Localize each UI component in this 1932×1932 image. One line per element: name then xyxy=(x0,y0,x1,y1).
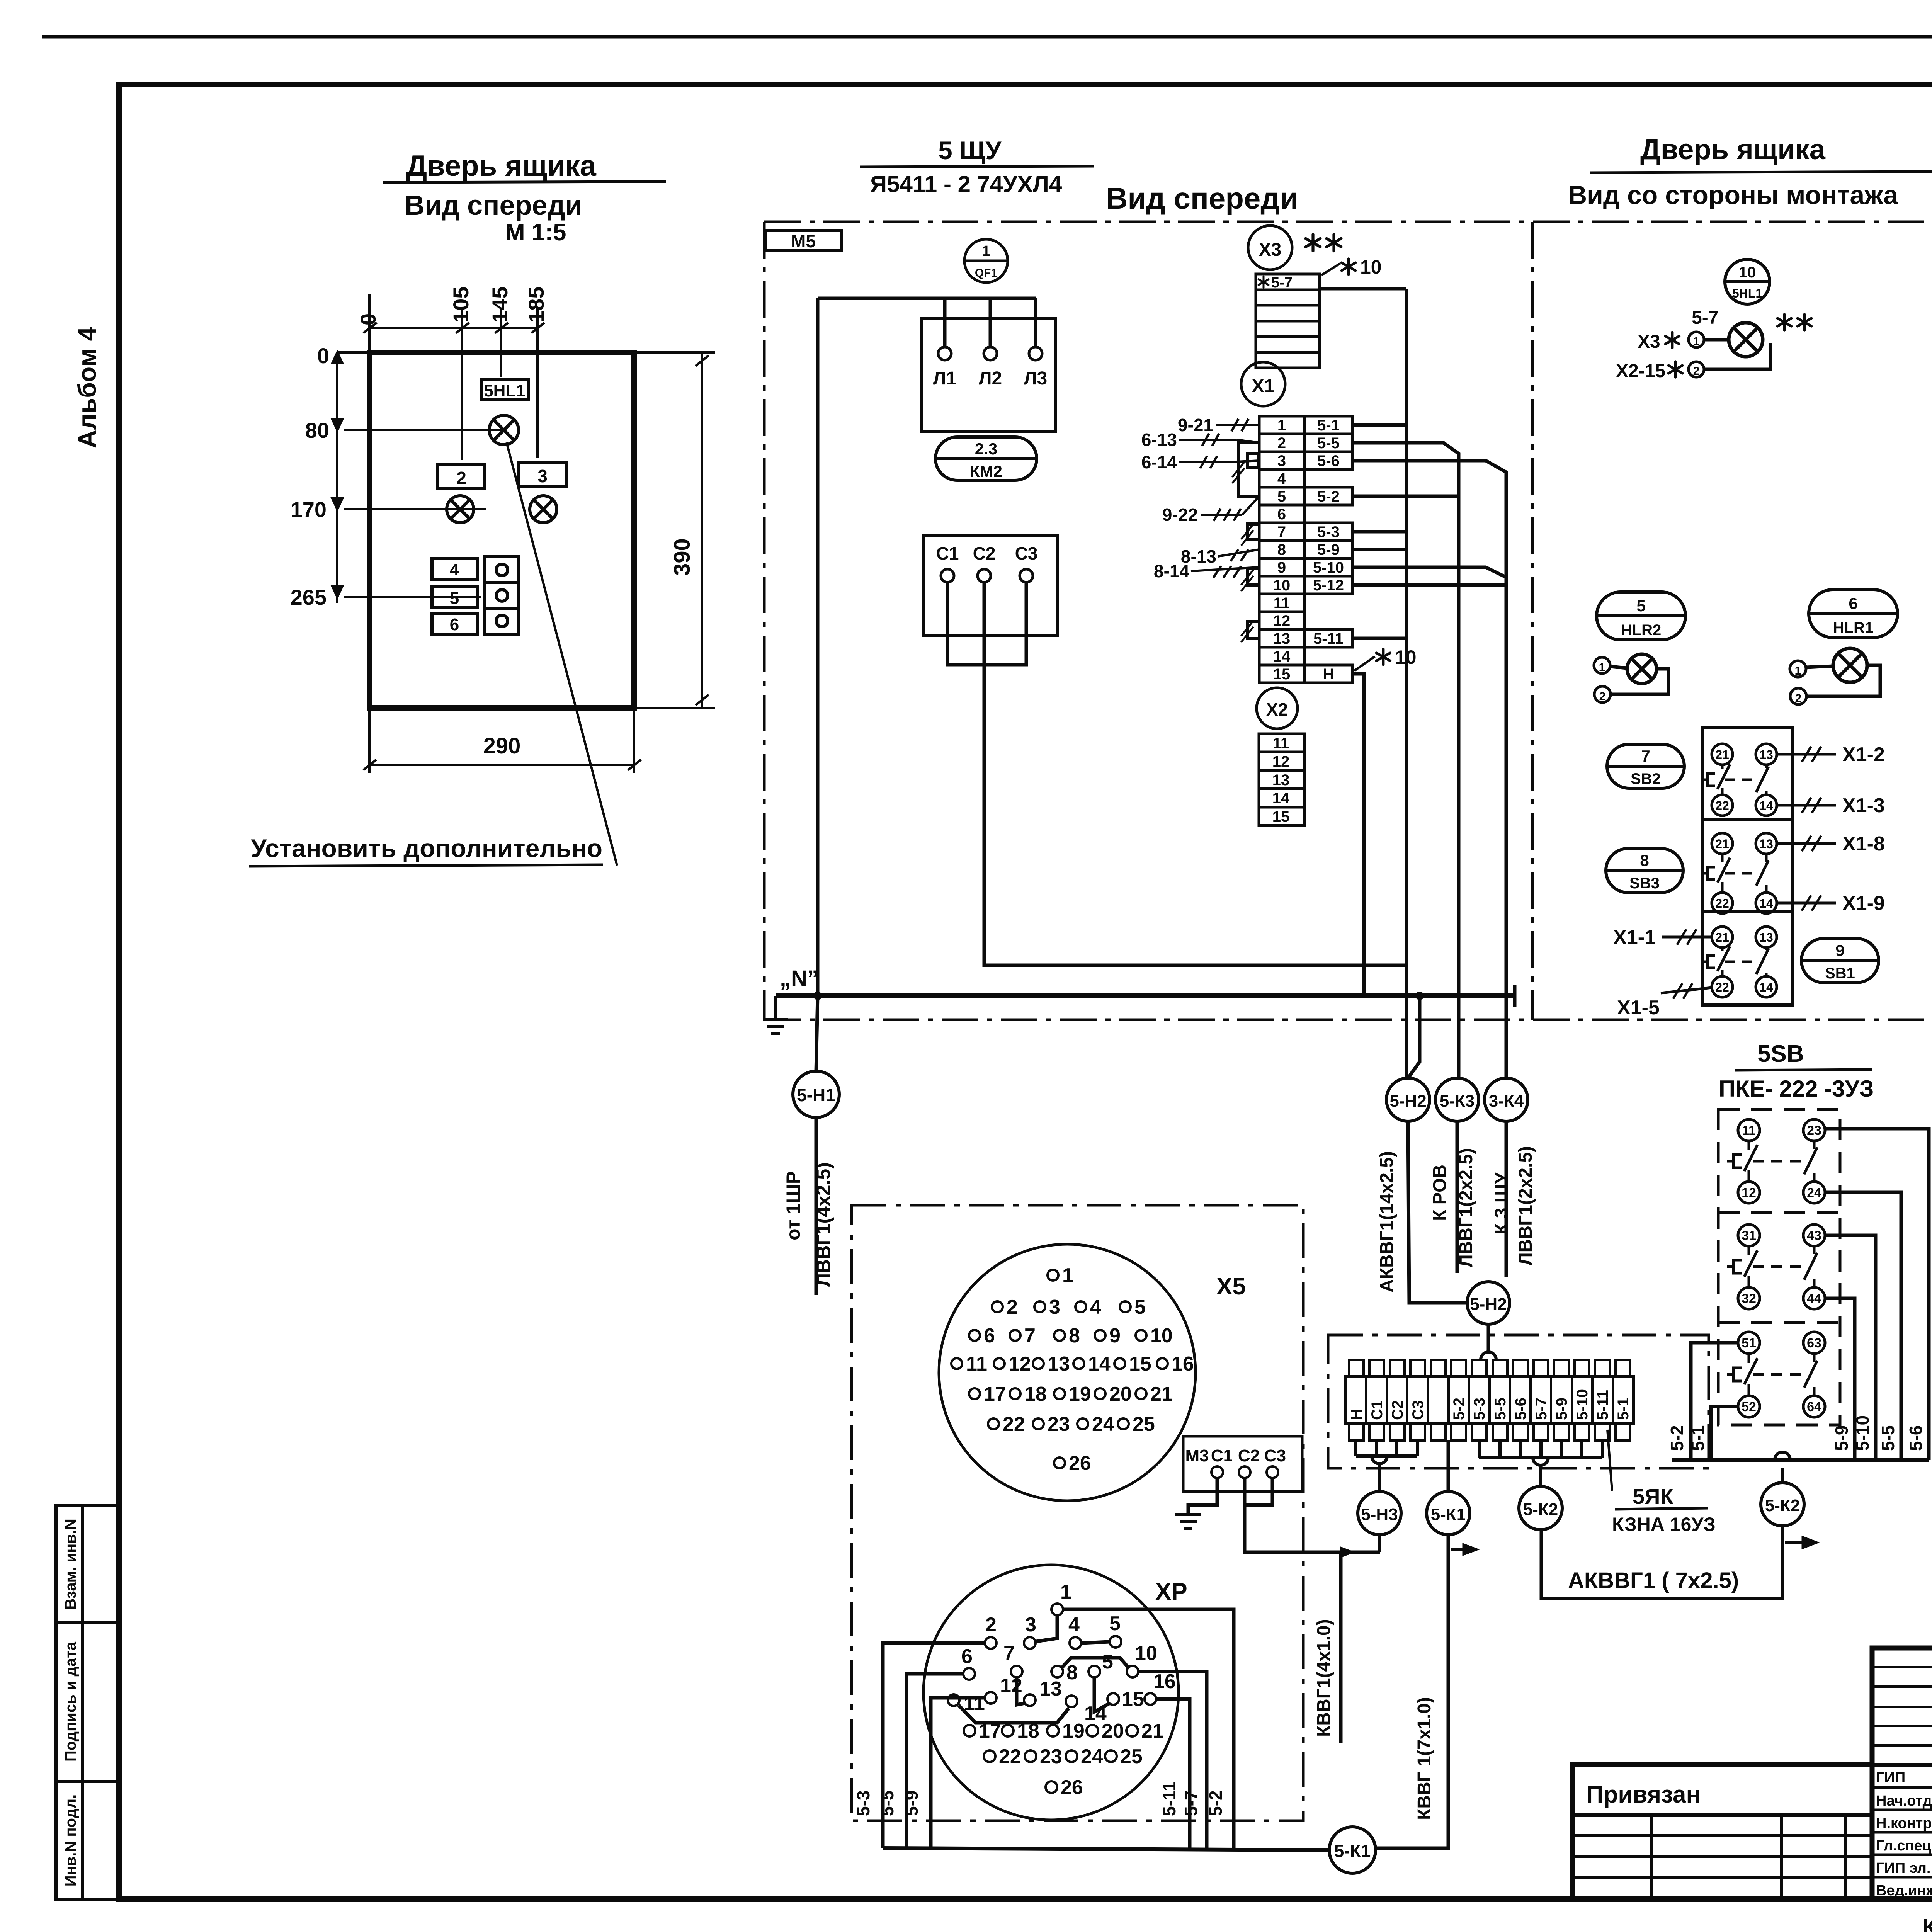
SB block section 1 contacts xyxy=(1702,744,1777,816)
svg-text:9-21: 9-21 xyxy=(1178,415,1213,435)
svg-text:2: 2 xyxy=(1007,1296,1018,1318)
X1 left jumper brackets xyxy=(1238,443,1259,638)
svg-text:5-5: 5-5 xyxy=(1492,1398,1509,1420)
svg-text:10: 10 xyxy=(1739,264,1756,281)
cable marker 5-Н2 xyxy=(1386,1078,1430,1121)
SB block section 3 contacts xyxy=(1702,927,1777,997)
svg-text:4: 4 xyxy=(1068,1614,1080,1636)
svg-text:С2: С2 xyxy=(973,543,996,563)
svg-text:22: 22 xyxy=(1715,799,1729,813)
svg-text:20: 20 xyxy=(1109,1383,1132,1405)
wire С1-С3 loop xyxy=(947,582,1026,665)
lamp 5HL1 xyxy=(1729,323,1763,357)
svg-text:от 1ШР: от 1ШР xyxy=(782,1171,804,1240)
svg-text:Инв.N подл.: Инв.N подл. xyxy=(62,1794,79,1887)
svg-text:1: 1 xyxy=(1277,417,1286,434)
svg-text:Л3: Л3 xyxy=(1024,368,1047,389)
svg-text:19: 19 xyxy=(1062,1720,1085,1742)
svg-text:5SB: 5SB xyxy=(1757,1041,1804,1067)
svg-text:Копир.: Копир. xyxy=(1922,1914,1932,1932)
svg-text:Н: Н xyxy=(1348,1409,1365,1420)
cable marker 5-Н1 xyxy=(793,1071,839,1117)
svg-text:23: 23 xyxy=(1048,1413,1070,1435)
svg-text:КЗНА 16УЗ: КЗНА 16УЗ xyxy=(1612,1514,1716,1535)
svg-text:АКВВГ1 ( 7х2.5): АКВВГ1 ( 7х2.5) xyxy=(1568,1568,1739,1593)
svg-text:5-10: 5-10 xyxy=(1852,1415,1872,1451)
svg-text:2: 2 xyxy=(1795,692,1802,705)
svg-text:170: 170 xyxy=(291,497,327,522)
svg-text:21: 21 xyxy=(1150,1383,1173,1405)
svg-text:ГИП: ГИП xyxy=(1876,1770,1905,1786)
svg-text:6: 6 xyxy=(961,1645,973,1668)
svg-text:3: 3 xyxy=(1025,1614,1036,1636)
5SB dashed enclosure xyxy=(1718,1109,1840,1425)
wire row7 to bus A xyxy=(1352,530,1406,534)
svg-text:1: 1 xyxy=(1060,1581,1071,1603)
wire 5-Н2 down to terminal box xyxy=(1408,1121,1467,1303)
XP wire pin10 to 5-7 xyxy=(1138,1672,1207,1848)
svg-text:3: 3 xyxy=(1277,452,1286,469)
svg-text:21: 21 xyxy=(1141,1720,1164,1742)
panel boundary dash-dot xyxy=(764,222,1932,1020)
svg-text:Н: Н xyxy=(1323,666,1334,683)
svg-text:5 ЩУ: 5 ЩУ xyxy=(938,136,1002,165)
right dimension 390 xyxy=(634,352,715,708)
svg-text:5-Н1: 5-Н1 xyxy=(797,1085,835,1105)
svg-text:2: 2 xyxy=(1599,690,1606,703)
svg-text:Вид со стороны монтажа: Вид со стороны монтажа xyxy=(1568,180,1898,210)
svg-text:5-9: 5-9 xyxy=(901,1791,922,1816)
svg-text:4: 4 xyxy=(1090,1296,1101,1318)
svg-text:14: 14 xyxy=(1273,648,1291,665)
wire bus B to 5-К3 xyxy=(1352,443,1459,1078)
svg-text:5-5: 5-5 xyxy=(877,1791,897,1816)
svg-text:7: 7 xyxy=(1277,524,1286,541)
svg-text:7: 7 xyxy=(1024,1325,1036,1347)
svg-text:11: 11 xyxy=(1273,735,1289,752)
XP collecting bus to 5-К1 xyxy=(883,1848,1329,1850)
svg-text:5: 5 xyxy=(1102,1651,1113,1673)
XP wire pin16 to 5-11 xyxy=(1156,1699,1190,1848)
svg-text:5-11: 5-11 xyxy=(1159,1781,1179,1816)
svg-text:5-5: 5-5 xyxy=(1878,1425,1898,1451)
svg-text:9-22: 9-22 xyxy=(1162,505,1198,525)
push button column xyxy=(485,557,519,634)
hook to 5-К2 xyxy=(1775,1452,1790,1460)
wire cell 5-2 to 5-К1 xyxy=(1447,1440,1450,1492)
svg-text:5ЯК: 5ЯК xyxy=(1633,1484,1673,1509)
svg-text:М 1:5: М 1:5 xyxy=(505,219,566,246)
lamp under 3 xyxy=(530,496,557,523)
wire 5-К2 loop to left 5-К2 xyxy=(1541,1526,1782,1599)
svg-text:23: 23 xyxy=(1040,1745,1062,1768)
svg-text:51: 51 xyxy=(1742,1336,1756,1350)
wire bracket С-cells to 5-Н3 xyxy=(1356,1440,1417,1492)
svg-text:10: 10 xyxy=(1360,256,1382,278)
svg-text:М3: М3 xyxy=(1185,1446,1209,1465)
svg-text:43: 43 xyxy=(1807,1228,1821,1243)
svg-text:5-11: 5-11 xyxy=(1594,1390,1611,1420)
svg-text:5: 5 xyxy=(450,589,459,608)
svg-text:2: 2 xyxy=(1693,365,1700,378)
svg-text:5-2: 5-2 xyxy=(1317,488,1340,505)
svg-text:5-2: 5-2 xyxy=(1206,1791,1226,1816)
svg-text:14: 14 xyxy=(1272,790,1290,807)
svg-text:Х1-5: Х1-5 xyxy=(1617,997,1660,1019)
wire to cable 5-Н1 xyxy=(816,996,818,1071)
svg-text:5: 5 xyxy=(1109,1612,1121,1635)
svg-text:8-14: 8-14 xyxy=(1154,561,1189,581)
svg-text:5-К3: 5-К3 xyxy=(1440,1092,1475,1111)
second cable marker 5-Н2 xyxy=(1467,1282,1510,1324)
door panel outline xyxy=(369,352,634,708)
svg-text:22: 22 xyxy=(999,1745,1021,1768)
svg-text:14: 14 xyxy=(1759,799,1773,813)
connector X3 terminal column xyxy=(1256,274,1320,368)
svg-text:10: 10 xyxy=(1135,1642,1157,1665)
connector X1 terminal table xyxy=(1259,416,1352,683)
panel tag M5 xyxy=(766,230,841,250)
marking callout *10 at row15 xyxy=(1354,656,1375,671)
svg-text:25: 25 xyxy=(1133,1413,1155,1435)
svg-text:Взам. инв.N: Взам. инв.N xyxy=(62,1519,79,1610)
svg-text:Х1-2: Х1-2 xyxy=(1842,743,1885,766)
svg-text:9: 9 xyxy=(1277,559,1286,576)
svg-text:Н.контр: Н.контр xyxy=(1876,1815,1932,1832)
svg-text:15: 15 xyxy=(1122,1688,1144,1711)
svg-text:2: 2 xyxy=(1277,435,1286,452)
svg-text:Х2: Х2 xyxy=(1266,699,1288,719)
svg-text:0: 0 xyxy=(356,313,380,325)
svg-text:64: 64 xyxy=(1807,1400,1821,1414)
X1 left jumper-removal labels xyxy=(1179,419,1259,578)
svg-text:25: 25 xyxy=(1120,1745,1143,1768)
svg-text:К 3 ШУ: К 3 ШУ xyxy=(1492,1172,1512,1235)
svg-text:5-7: 5-7 xyxy=(1181,1791,1201,1816)
svg-text:Альбом 4: Альбом 4 xyxy=(73,327,101,448)
svg-text:Л2: Л2 xyxy=(979,368,1002,389)
wire 23 to bus 5-6 xyxy=(1825,1129,1929,1460)
lamp balloon 5/HLR2 xyxy=(1597,592,1685,640)
wire 51 to bus 5-2 xyxy=(1691,1343,1738,1460)
svg-text:ПКЕ- 222 -3УЗ: ПКЕ- 222 -3УЗ xyxy=(1719,1076,1874,1102)
motor terminal box М3 С1 С2 С3 xyxy=(1183,1436,1302,1492)
cable marker 5-К1 xyxy=(1427,1492,1470,1535)
svg-text:ХР: ХР xyxy=(1155,1578,1187,1605)
svg-text:К РОВ: К РОВ xyxy=(1430,1165,1450,1221)
wire 5-К3 cable off sheet xyxy=(1456,1121,1459,1273)
svg-text:10: 10 xyxy=(1150,1325,1173,1347)
svg-text:0: 0 xyxy=(317,344,329,368)
svg-text:Х3: Х3 xyxy=(1638,332,1660,352)
svg-text:1: 1 xyxy=(982,243,990,259)
XP wire pin12 to 5-9 xyxy=(931,1698,985,1848)
svg-text:5-К1: 5-К1 xyxy=(1431,1505,1466,1524)
svg-text:5-6: 5-6 xyxy=(1512,1398,1529,1420)
XP link 7-13 xyxy=(1017,1677,1025,1705)
XP link 11-14 xyxy=(959,1705,1069,1723)
svg-text:5-6: 5-6 xyxy=(1317,452,1340,469)
svg-text:13: 13 xyxy=(1759,837,1773,851)
svg-text:2: 2 xyxy=(456,468,466,488)
svg-text:6-14: 6-14 xyxy=(1141,452,1177,472)
svg-text:6: 6 xyxy=(1849,594,1857,612)
svg-text:5HL1: 5HL1 xyxy=(484,381,526,400)
top dimension line xyxy=(363,294,544,460)
cable marker 5-К2 right xyxy=(1761,1483,1804,1526)
callout X1-8 xyxy=(1777,842,1836,845)
wire bus A to 5-Н2 xyxy=(1405,289,1408,1078)
svg-text:10: 10 xyxy=(1395,646,1417,668)
connector XP xyxy=(923,1565,1179,1820)
svg-text:5-9: 5-9 xyxy=(1553,1398,1570,1420)
wire bracket 5-3..5-11 cells to 5-К2 xyxy=(1479,1440,1602,1486)
svg-text:63: 63 xyxy=(1807,1336,1821,1350)
svg-text:52: 52 xyxy=(1742,1400,1756,1414)
svg-text:13: 13 xyxy=(1759,930,1773,944)
svg-text:ГИП эл.: ГИП эл. xyxy=(1876,1860,1930,1876)
svg-text:9: 9 xyxy=(1835,941,1844,959)
svg-text:5-10: 5-10 xyxy=(1574,1389,1591,1420)
svg-text:16: 16 xyxy=(1153,1670,1176,1693)
svg-text:Х1-8: Х1-8 xyxy=(1842,833,1885,855)
svg-text:5-3: 5-3 xyxy=(853,1791,873,1816)
cable marker 3-К4 xyxy=(1485,1078,1528,1121)
connector balloon X1 xyxy=(1241,362,1285,406)
svg-text:15: 15 xyxy=(1272,808,1290,825)
svg-text:11: 11 xyxy=(1274,595,1290,612)
svg-text:5-Н2: 5-Н2 xyxy=(1470,1295,1507,1314)
wire bus C to 3-К4 xyxy=(1352,461,1506,1078)
wire row5 to bus B xyxy=(1352,495,1459,498)
svg-text:7: 7 xyxy=(1003,1642,1015,1665)
svg-text:5-К2: 5-К2 xyxy=(1523,1500,1558,1519)
svg-text:5-7: 5-7 xyxy=(1533,1398,1550,1420)
XP link 8-10 xyxy=(1062,1658,1128,1668)
wire С2 С3 to 5-Н3 xyxy=(1245,1478,1272,1505)
svg-text:Х1: Х1 xyxy=(1252,376,1275,396)
svg-text:4: 4 xyxy=(450,560,459,579)
svg-text:290: 290 xyxy=(483,733,521,759)
svg-text:44: 44 xyxy=(1807,1291,1821,1306)
svg-text:24: 24 xyxy=(1092,1413,1114,1435)
N bus xyxy=(776,993,1515,998)
cable branch КВВГ1(4х1.0) xyxy=(1339,1552,1343,1743)
svg-text:6: 6 xyxy=(1277,506,1286,523)
svg-text:Х1-9: Х1-9 xyxy=(1842,892,1885,915)
svg-text:Привязан: Привязан xyxy=(1586,1781,1701,1808)
svg-text:24: 24 xyxy=(1081,1745,1103,1768)
svg-text:С3: С3 xyxy=(1410,1400,1427,1420)
svg-text:5-К2: 5-К2 xyxy=(1765,1496,1800,1515)
svg-text:QF1: QF1 xyxy=(975,267,997,279)
svg-text:1: 1 xyxy=(1795,665,1801,677)
svg-text:31: 31 xyxy=(1742,1228,1756,1243)
wire 5-К1 cable down xyxy=(1376,1535,1448,1848)
svg-text:5-12: 5-12 xyxy=(1313,577,1344,594)
svg-text:5-1: 5-1 xyxy=(1317,417,1340,434)
svg-text:Дверь ящика: Дверь ящика xyxy=(406,150,597,182)
svg-text:5-1: 5-1 xyxy=(1688,1425,1708,1451)
svg-text:Гл.спец.: Гл.спец. xyxy=(1876,1838,1932,1854)
svg-text:14: 14 xyxy=(1759,980,1773,994)
svg-text:8: 8 xyxy=(1277,541,1286,558)
svg-text:5-2: 5-2 xyxy=(1667,1425,1687,1451)
svg-text:С3: С3 xyxy=(1015,543,1038,563)
contactor box with terminals С1 С2 С3 xyxy=(924,535,1057,635)
cable marker 5-К1 lower xyxy=(1329,1827,1376,1873)
wire 24 to bus 5-5 xyxy=(1825,1192,1901,1460)
lamp under 2 xyxy=(447,496,474,523)
svg-text:Вид спереди: Вид спереди xyxy=(405,190,582,221)
push-button block SB2/SB3/SB1 xyxy=(1702,728,1793,1005)
svg-text:SB3: SB3 xyxy=(1629,875,1660,892)
svg-text:22: 22 xyxy=(1715,896,1729,910)
svg-text:11: 11 xyxy=(1742,1123,1756,1138)
svg-text:5-9: 5-9 xyxy=(1317,541,1340,558)
breaker box with terminals Л1 Л2 Л3 xyxy=(921,319,1056,432)
svg-text:11: 11 xyxy=(966,1353,987,1375)
label box 3 xyxy=(519,462,566,487)
svg-text:SB1: SB1 xyxy=(1825,965,1855,982)
wire row9 to bus C xyxy=(1352,567,1506,577)
connector X2 terminal column xyxy=(1259,734,1304,825)
svg-text:13: 13 xyxy=(1759,748,1773,762)
junction node at feeder/N xyxy=(813,992,822,1000)
svg-text:М5: М5 xyxy=(791,231,816,251)
wire С2 down to bus A xyxy=(984,582,1406,965)
svg-text:15: 15 xyxy=(1273,666,1291,683)
svg-text:5-3: 5-3 xyxy=(1471,1398,1488,1420)
svg-text:13: 13 xyxy=(1048,1353,1070,1375)
svg-text:Дверь ящика: Дверь ящика xyxy=(1640,133,1826,165)
SB block section 2 contacts xyxy=(1702,833,1777,913)
label box 2 xyxy=(438,464,485,489)
svg-text:26: 26 xyxy=(1061,1776,1083,1799)
wire left feeder drop xyxy=(816,298,820,996)
svg-text:12: 12 xyxy=(1272,753,1290,770)
arrow on wire xyxy=(1340,1546,1355,1558)
5SB section contacts 31-32 43-44 xyxy=(1727,1225,1825,1309)
svg-text:1: 1 xyxy=(1062,1264,1073,1287)
svg-text:4: 4 xyxy=(1277,470,1286,487)
svg-text:5-6: 5-6 xyxy=(1906,1425,1926,1451)
svg-text:3: 3 xyxy=(1049,1296,1060,1318)
5SB collecting bus xyxy=(1672,1458,1929,1462)
cable marker 5-Н3 xyxy=(1358,1492,1401,1535)
svg-text:8: 8 xyxy=(1066,1662,1078,1684)
svg-text:32: 32 xyxy=(1742,1291,1756,1306)
svg-text:Вед.инж.: Вед.инж. xyxy=(1876,1883,1932,1899)
svg-text:5-9: 5-9 xyxy=(1832,1425,1852,1451)
svg-text:13: 13 xyxy=(1273,630,1291,647)
svg-text:Х5: Х5 xyxy=(1216,1273,1246,1300)
wire: feeder bus into breaker xyxy=(818,298,1036,347)
svg-text:16: 16 xyxy=(1172,1353,1194,1375)
svg-text:КВВГ1(4х1.0): КВВГ1(4х1.0) xyxy=(1314,1619,1334,1737)
terminal strip enclosure xyxy=(1328,1335,1709,1468)
svg-text:26: 26 xyxy=(1069,1452,1091,1475)
XP link 1-3 xyxy=(1036,1615,1057,1641)
svg-text:7: 7 xyxy=(1641,747,1650,765)
svg-text:С3: С3 xyxy=(1264,1446,1286,1465)
cable marker 5-К3 xyxy=(1435,1078,1479,1121)
svg-text:22: 22 xyxy=(1003,1413,1025,1435)
svg-text:HLR1: HLR1 xyxy=(1833,619,1873,636)
svg-text:6-13: 6-13 xyxy=(1141,430,1177,450)
svg-text:21: 21 xyxy=(1715,748,1729,762)
XP link 9-15 xyxy=(1094,1677,1110,1712)
svg-text:5-7: 5-7 xyxy=(1692,308,1718,328)
svg-text:265: 265 xyxy=(291,585,327,609)
svg-text:105: 105 xyxy=(449,287,473,323)
svg-text:Х3: Х3 xyxy=(1259,240,1282,260)
svg-text:Подпись и дата: Подпись и дата xyxy=(62,1641,79,1762)
button balloon SB2 xyxy=(1607,744,1684,788)
svg-text:10: 10 xyxy=(1273,577,1291,594)
wire 43 to bus 5-10 xyxy=(1825,1235,1876,1460)
svg-text:145: 145 xyxy=(488,287,512,323)
svg-text:КВВГ 1(7х1.0): КВВГ 1(7х1.0) xyxy=(1414,1697,1435,1820)
connector X5 xyxy=(939,1244,1196,1501)
svg-text:5-3: 5-3 xyxy=(1317,524,1340,541)
svg-text:С1: С1 xyxy=(1211,1446,1233,1465)
svg-text:„N”: „N” xyxy=(780,966,818,991)
XP link 4-5 xyxy=(1081,1642,1110,1643)
svg-text:5-Н2: 5-Н2 xyxy=(1389,1092,1426,1111)
svg-text:2: 2 xyxy=(985,1614,997,1636)
cable marker 5-К2 left xyxy=(1519,1486,1562,1530)
connector compartment boundary xyxy=(852,1205,1303,1821)
svg-text:6: 6 xyxy=(984,1325,995,1347)
svg-text:80: 80 xyxy=(305,418,329,442)
wire 44 to bus 5-9 xyxy=(1825,1298,1855,1460)
svg-text:С1: С1 xyxy=(936,543,959,563)
svg-text:5: 5 xyxy=(1134,1296,1146,1318)
wire X3 to bus A xyxy=(1320,287,1406,291)
svg-text:КМ2: КМ2 xyxy=(970,462,1002,480)
lamp balloon 10/5HL1 xyxy=(1725,259,1770,304)
ground at N bus xyxy=(763,996,788,1033)
svg-text:Нач.отд.: Нач.отд. xyxy=(1876,1793,1932,1809)
XP wire pin2 to 5-3 xyxy=(883,1643,985,1848)
svg-text:2.3: 2.3 xyxy=(975,440,997,458)
callout X1-9 xyxy=(1777,902,1836,905)
svg-text:12: 12 xyxy=(1000,1675,1022,1697)
svg-text:14: 14 xyxy=(1759,896,1773,910)
svg-text:АКВВГ1(14х2.5): АКВВГ1(14х2.5) xyxy=(1377,1151,1397,1293)
lamp HL on door xyxy=(489,415,519,445)
svg-text:5HL1: 5HL1 xyxy=(1732,286,1762,300)
leader line to additional note xyxy=(507,442,617,866)
svg-text:HLR2: HLR2 xyxy=(1621,622,1661,639)
callout X1-2 xyxy=(1777,753,1836,756)
svg-text:Х2-15: Х2-15 xyxy=(1616,361,1665,381)
svg-text:Я5411 - 2 74УХЛ4: Я5411 - 2 74УХЛ4 xyxy=(870,171,1062,197)
svg-text:Х1-1: Х1-1 xyxy=(1613,926,1656,949)
svg-text:22: 22 xyxy=(1715,980,1729,994)
svg-text:С2: С2 xyxy=(1238,1446,1260,1465)
wire С1 to ground xyxy=(1188,1478,1217,1515)
wire row10 to bus C xyxy=(1352,583,1506,587)
button balloon SB3 xyxy=(1606,849,1683,893)
wire row13 to bus A xyxy=(1352,637,1406,640)
button balloon SB1 xyxy=(1801,939,1879,983)
signature rows: roles xyxy=(1876,1770,1932,1899)
wire row8 to bus A xyxy=(1352,548,1406,551)
signature block row lines xyxy=(1872,1667,1932,1745)
terminal strip label 5ЯК КЗНА 16УЗ xyxy=(1607,1430,1612,1491)
